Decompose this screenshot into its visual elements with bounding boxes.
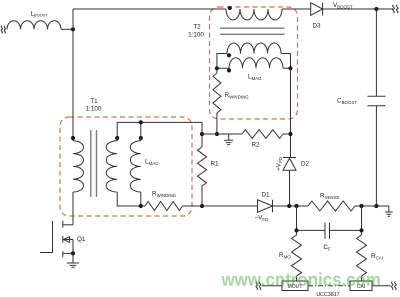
node T1 L_MAG phase dot	[139, 136, 143, 140]
wire left vertical to T1 primary	[72, 9, 74, 141]
mosfet Q1 channel stubs	[62, 221, 64, 257]
wire R_CAI to CAI pin	[361, 276, 363, 281]
mosfet Q1 gate lead	[40, 252, 53, 254]
capacitor C_BOOST	[368, 96, 386, 105]
node MOUT branch junction	[294, 204, 298, 208]
node C_F right junction	[359, 228, 363, 232]
resistor R_WINDING of T2	[213, 68, 221, 134]
mosfet Q1 drain lead	[63, 224, 73, 226]
wire MOUT left lead	[262, 285, 283, 287]
svg-text:VBOOST: VBOOST	[333, 2, 353, 9]
diode D2	[283, 158, 296, 171]
wire CAI right lead	[372, 285, 391, 287]
wire C_BOOST bottom	[375, 106, 377, 206]
dashed boundary box T1	[60, 117, 192, 216]
wire T1 L_MAG bottom stub	[140, 192, 142, 206]
svg-text:RSENSE: RSENSE	[320, 193, 340, 200]
chip outline dash between pins	[308, 285, 350, 287]
dashed boundary box T2	[210, 7, 298, 119]
node CAI branch junction	[359, 204, 363, 208]
node R2 right junction	[288, 132, 292, 136]
svg-text:1:100: 1:100	[86, 106, 102, 113]
resistor R_CAI	[357, 235, 367, 276]
wire T1 L_MAG top stub	[140, 122, 142, 140]
break symbol MOUT lead	[256, 282, 261, 290]
node D2 junction	[287, 204, 291, 208]
resistor R2	[242, 130, 283, 139]
transformer T2 primary winding	[226, 9, 282, 20]
watermark www.cntronics.com	[221, 272, 380, 286]
node T2 primary phase dot	[228, 6, 232, 10]
svg-text:LBOOST: LBOOST	[31, 11, 49, 18]
resistor R1	[198, 134, 207, 206]
diode D3	[311, 3, 323, 16]
node R1 bottom junction	[200, 204, 204, 208]
node V_BOOST junction	[374, 7, 378, 11]
pin box CAI of UCC3817	[350, 281, 372, 291]
node T2 right junction	[288, 66, 292, 70]
svg-text:CBOOST: CBOOST	[337, 98, 357, 105]
node L_MAG phase dot	[227, 68, 231, 72]
node T1 top junction	[139, 120, 143, 124]
svg-text:CF: CF	[323, 244, 331, 251]
ground at R2	[224, 134, 233, 145]
svg-text:UCC3817: UCC3817	[316, 292, 339, 297]
svg-text:T1: T1	[90, 98, 98, 105]
capacitor C_F	[297, 223, 362, 240]
svg-text:LMAG: LMAG	[248, 74, 262, 81]
break symbol top right	[393, 5, 398, 13]
svg-text:LMAG: LMAG	[145, 159, 159, 166]
wire MOUT branch vertical	[296, 206, 298, 235]
svg-text:1:100: 1:100	[188, 32, 204, 39]
inductor L_MAG of T1	[130, 141, 141, 192]
ground right	[385, 212, 393, 216]
node T1 bottom junction	[139, 204, 143, 208]
transformer T1 core	[91, 130, 97, 197]
node T1 primary phase dot	[71, 136, 75, 140]
node C_BOOST bottom junction	[374, 204, 378, 208]
break symbol left edge	[1, 26, 5, 33]
mosfet Q1 gate bar	[52, 221, 54, 253]
ground at Q1	[67, 253, 79, 267]
node T1 secondary phase dot	[115, 136, 119, 140]
mosfet Q1 source lead	[63, 240, 73, 254]
svg-text:Q1: Q1	[77, 236, 86, 243]
node T2 secondary phase dot	[227, 53, 231, 57]
svg-text:RWINDING: RWINDING	[225, 92, 250, 99]
svg-text:RCAI: RCAI	[371, 253, 383, 260]
node R_WINDING2 bottom junction	[215, 132, 219, 136]
wire D2 to bottom net	[289, 170, 291, 206]
svg-text:R2: R2	[251, 142, 260, 149]
resistor R_SENSE	[308, 201, 355, 211]
wire T1 secondary bottom	[117, 192, 145, 206]
svg-text:T2: T2	[193, 24, 201, 31]
inductor L_BOOST	[7, 21, 61, 30]
svg-text:+VFD: +VFD	[276, 157, 283, 171]
node R1 top junction	[200, 132, 204, 136]
wire T2 secondary left	[217, 54, 229, 69]
diode D1	[258, 200, 273, 212]
wire C_BOOST top	[375, 9, 377, 96]
svg-text:D3: D3	[312, 23, 321, 30]
wire R2 net	[202, 133, 291, 135]
wire T2 secondary right	[281, 54, 291, 69]
svg-text:R1: R1	[211, 161, 220, 168]
svg-text:D2: D2	[301, 161, 310, 168]
svg-text:−VFD: −VFD	[255, 215, 269, 222]
transformer T1 primary winding	[73, 141, 84, 192]
wire bottom net to D1	[183, 205, 258, 207]
mosfet Q1 body lead with arrow	[63, 239, 73, 241]
wire R_MO to MOUT pin	[296, 276, 298, 281]
break symbol CAI lead	[391, 282, 396, 290]
wire D1 to junctions	[273, 205, 309, 207]
wire T1 secondary top	[117, 122, 202, 140]
node Q1 source junction	[71, 251, 75, 255]
transformer T2 secondary winding	[227, 43, 281, 54]
wire CAI branch vertical	[361, 206, 363, 235]
svg-text:RWINDING: RWINDING	[152, 191, 177, 198]
node T2 left junction	[215, 66, 219, 70]
wire R_SENSE right	[355, 206, 389, 212]
svg-text:D1: D1	[261, 192, 270, 199]
transformer T2 core	[220, 28, 285, 34]
svg-text:RMO: RMO	[279, 252, 291, 259]
wire T1 primary to Q1 drain	[72, 192, 74, 225]
resistor R_WINDING of T1	[145, 202, 183, 211]
inductor L_MAG of T2	[229, 58, 283, 69]
node C_F left junction	[294, 228, 298, 232]
wire T2 right vertical down	[290, 68, 292, 157]
pin box MOUT of UCC3817	[282, 281, 308, 291]
node L_BOOST junction	[71, 27, 75, 31]
transformer T1 secondary winding	[106, 141, 117, 192]
resistor R_MO	[292, 235, 302, 276]
wire L_BOOST to junction	[61, 28, 73, 30]
wire top rail	[73, 8, 393, 10]
